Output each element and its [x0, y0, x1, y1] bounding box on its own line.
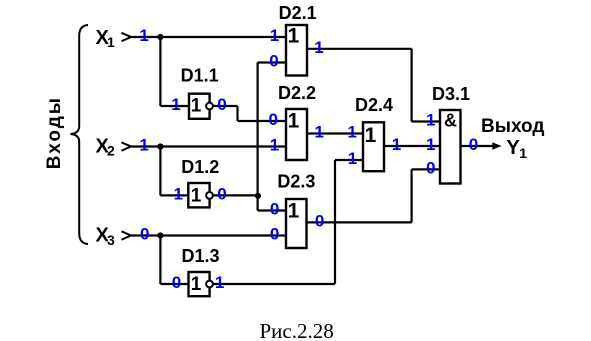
svg-text:1: 1	[215, 273, 224, 292]
svg-text:&: &	[444, 110, 457, 130]
svg-text:1: 1	[426, 135, 435, 154]
svg-text:1: 1	[173, 185, 182, 204]
svg-text:1: 1	[519, 145, 527, 161]
svg-text:D1.3: D1.3	[182, 246, 220, 266]
svg-text:0: 0	[140, 225, 149, 244]
svg-text:3: 3	[107, 232, 115, 248]
svg-text:0: 0	[469, 135, 478, 154]
svg-text:1: 1	[171, 95, 180, 114]
svg-text:0: 0	[172, 273, 181, 292]
svg-text:1: 1	[392, 135, 401, 154]
svg-text:1: 1	[139, 136, 148, 155]
svg-text:0: 0	[315, 212, 324, 231]
svg-text:1: 1	[191, 274, 202, 295]
svg-text:Выход: Выход	[481, 116, 544, 137]
svg-text:1: 1	[347, 123, 356, 142]
svg-text:1: 1	[314, 38, 323, 57]
svg-text:1: 1	[191, 96, 202, 117]
svg-text:1: 1	[365, 124, 377, 147]
svg-text:1: 1	[288, 200, 300, 223]
svg-text:0: 0	[269, 52, 278, 71]
svg-text:D2.4: D2.4	[355, 95, 393, 115]
svg-text:0: 0	[270, 200, 279, 219]
svg-text:D1.1: D1.1	[181, 66, 219, 86]
svg-text:1: 1	[270, 136, 279, 155]
svg-text:1: 1	[270, 26, 279, 45]
svg-text:1: 1	[288, 110, 300, 133]
svg-text:0: 0	[217, 95, 226, 114]
svg-text:0: 0	[268, 110, 277, 129]
svg-text:D2.3: D2.3	[277, 172, 315, 192]
svg-text:1: 1	[426, 111, 435, 130]
svg-text:0: 0	[270, 225, 279, 244]
svg-text:Входы: Входы	[44, 96, 65, 169]
svg-text:D2.2: D2.2	[278, 83, 316, 103]
svg-text:1: 1	[288, 25, 300, 48]
svg-text:1: 1	[139, 26, 148, 45]
svg-text:1: 1	[107, 34, 115, 50]
svg-text:D3.1: D3.1	[432, 84, 470, 104]
svg-text:0: 0	[426, 159, 435, 178]
svg-text:D1.2: D1.2	[181, 157, 219, 177]
svg-text:1: 1	[348, 149, 357, 168]
svg-text:2: 2	[107, 143, 115, 159]
svg-text:Рис.2.28: Рис.2.28	[260, 319, 334, 341]
svg-text:D2.1: D2.1	[279, 3, 317, 23]
svg-text:0: 0	[217, 185, 226, 204]
svg-text:1: 1	[314, 123, 323, 142]
svg-text:1: 1	[191, 186, 202, 207]
